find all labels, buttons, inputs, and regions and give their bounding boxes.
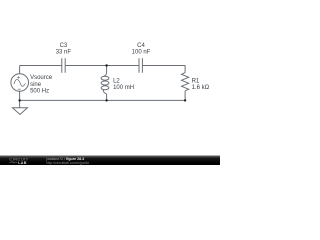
svg-text:500 Hz: 500 Hz <box>30 88 49 94</box>
source V1 circle <box>11 74 29 92</box>
svg-text:Vsource: Vsource <box>30 75 53 81</box>
source sine squiggle <box>14 79 25 86</box>
capacitor C3 <box>62 58 65 73</box>
logo zigzag wire <box>9 161 17 163</box>
inductor L2 bottom lead <box>106 94 108 101</box>
svg-text:1.6 kΩ: 1.6 kΩ <box>192 85 210 91</box>
svg-text:C4: C4 <box>137 43 145 49</box>
wire: source bottom stem <box>19 91 21 100</box>
wire: top rail from source corner to C3 <box>20 65 62 67</box>
svg-text:33 nF: 33 nF <box>56 49 72 55</box>
wire: bottom rail <box>20 99 186 101</box>
junction dot: source bottom / ground tee <box>18 99 20 101</box>
svg-text:100 mH: 100 mH <box>113 85 134 91</box>
wire: R1 bottom lead <box>184 91 186 101</box>
wire: source top stem <box>19 66 21 74</box>
svg-text:sine: sine <box>30 82 42 88</box>
inductor L2 coil <box>104 73 107 76</box>
svg-text:R1: R1 <box>192 78 200 84</box>
svg-text:100 nF: 100 nF <box>132 49 151 55</box>
ground triangle <box>13 108 28 115</box>
wire: C4 to R1 top corner <box>142 66 185 73</box>
svg-text:LAB: LAB <box>18 161 26 165</box>
source minus sign <box>18 88 21 90</box>
svg-text:C3: C3 <box>60 43 68 49</box>
svg-text:http://circuitlab.com/c/jpw4e: http://circuitlab.com/c/jpw4e <box>46 161 89 165</box>
ground stem <box>19 100 21 107</box>
source plus sign <box>17 76 20 78</box>
junction dot: bottom of R1 <box>184 99 186 101</box>
svg-text:L2: L2 <box>113 78 120 84</box>
capacitor C4 <box>139 58 142 73</box>
footer bar <box>0 156 220 166</box>
wire: C3 to C4 through node A <box>65 65 139 67</box>
resistor R1 <box>182 73 189 91</box>
junction dot: bottom of L2 <box>105 99 107 101</box>
inductor L2 top lead <box>106 66 108 74</box>
node A junction dot (top of L2) <box>105 64 107 66</box>
